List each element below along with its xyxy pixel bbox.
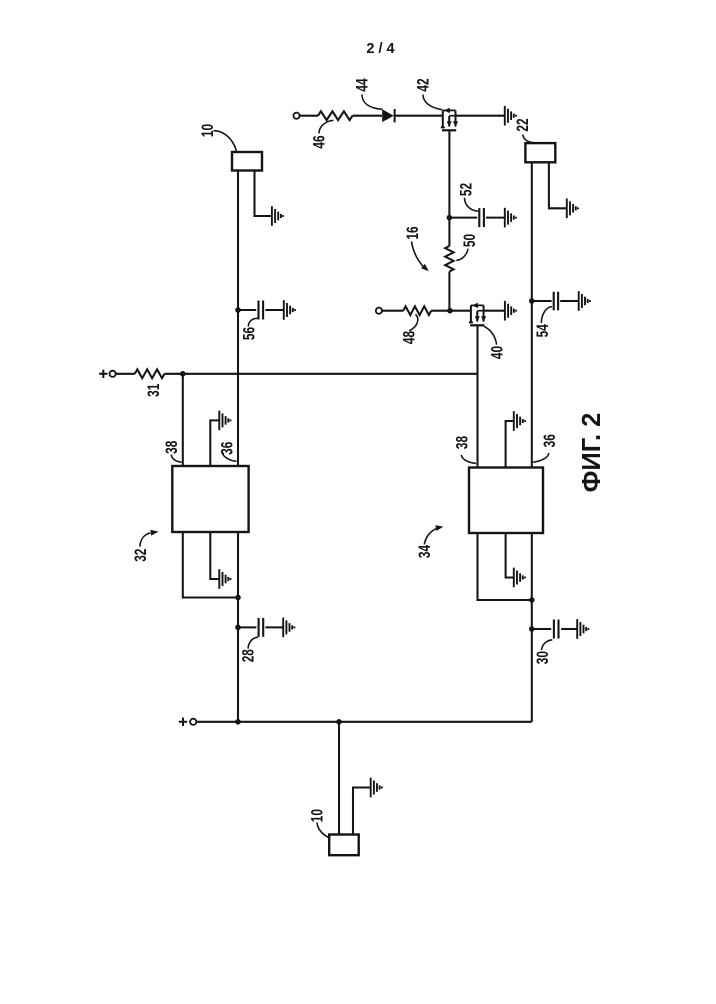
wire xyxy=(486,217,505,219)
wire xyxy=(265,309,283,311)
svg-text:44: 44 xyxy=(354,78,372,91)
label 42 xyxy=(415,78,433,91)
wire (box 32 gnd bottom) xyxy=(210,532,219,579)
wire (bus to box 32) xyxy=(182,374,184,466)
wire (box 34 left return) xyxy=(478,533,532,600)
ground xyxy=(577,619,588,639)
arrow 32 xyxy=(140,530,159,547)
svg-text:30: 30 xyxy=(534,651,552,664)
leader 42 xyxy=(423,95,442,110)
svg-text:46: 46 xyxy=(311,135,329,148)
box 10 (top left) xyxy=(232,152,262,171)
right column wire (box34 to bus) xyxy=(531,533,533,722)
svg-text:38: 38 xyxy=(454,436,472,449)
arrow 16 xyxy=(412,242,429,272)
svg-text:50: 50 xyxy=(461,234,479,247)
leader 50 xyxy=(456,249,468,261)
capacitor 30 xyxy=(554,620,559,639)
ground xyxy=(514,568,525,588)
wire xyxy=(353,115,383,117)
capacitor 52 xyxy=(479,208,484,227)
label 38 (right) xyxy=(454,436,472,449)
bottom bus wire xyxy=(196,721,532,723)
wire xyxy=(116,373,135,375)
wire xyxy=(431,310,471,312)
leader 30 xyxy=(542,640,553,650)
label 52 xyxy=(458,183,476,196)
label 32 xyxy=(132,549,150,562)
ground xyxy=(272,206,283,226)
leader 52 xyxy=(465,198,479,211)
leader 22 xyxy=(523,135,538,144)
terminal (+, upper bus) xyxy=(99,370,116,378)
node (left column joins bus) xyxy=(235,719,241,725)
capacitor 56 xyxy=(259,301,264,320)
leader 40 xyxy=(484,326,497,344)
label 56 xyxy=(241,327,259,340)
svg-text:22: 22 xyxy=(514,118,532,131)
ground xyxy=(283,618,294,638)
svg-text:36: 36 xyxy=(541,434,559,447)
box 22 xyxy=(525,143,555,162)
wire xyxy=(255,171,272,217)
transistor 42 xyxy=(441,108,458,131)
leader 56 xyxy=(248,318,258,326)
diode 44 xyxy=(382,109,394,122)
svg-text:2 / 4: 2 / 4 xyxy=(366,41,394,57)
label 10 xyxy=(199,124,217,137)
node xyxy=(235,595,241,601)
wire xyxy=(549,162,567,208)
resistor 48 xyxy=(403,306,431,315)
svg-text:42: 42 xyxy=(415,78,433,91)
ground xyxy=(567,199,578,219)
label 16 xyxy=(404,226,422,239)
svg-text:10: 10 xyxy=(309,809,327,822)
node (cap 54 tap) xyxy=(529,298,535,304)
svg-text:54: 54 xyxy=(534,324,552,337)
label 36 (right) xyxy=(541,434,559,447)
terminal (+, bottom bus) xyxy=(179,718,196,726)
wire (gate 40 to box 34) xyxy=(476,326,478,468)
wire (box 34 gnd top) xyxy=(506,421,514,468)
terminal (input, second row) xyxy=(376,308,382,314)
label 54 xyxy=(534,324,552,337)
figure caption ФИГ. 2 xyxy=(578,413,606,493)
svg-text:56: 56 xyxy=(241,327,259,340)
node (cap 28 tap) xyxy=(235,625,241,631)
leader 38 (right) xyxy=(461,455,476,464)
ground xyxy=(284,300,295,320)
ground xyxy=(371,778,382,798)
wire xyxy=(449,217,477,219)
label 38 xyxy=(163,441,181,454)
wire xyxy=(560,300,578,302)
svg-text:38: 38 xyxy=(163,441,181,454)
wire xyxy=(382,310,403,312)
ground xyxy=(579,291,590,311)
wire xyxy=(448,272,450,311)
label 46 xyxy=(311,135,329,148)
leader 36 xyxy=(222,450,237,461)
node (box 10 tap) xyxy=(336,719,342,725)
leader 36 (right) xyxy=(533,453,549,462)
left column wire xyxy=(237,171,239,722)
svg-text:40: 40 xyxy=(489,346,507,359)
wire xyxy=(448,218,450,246)
label 44 xyxy=(354,78,372,91)
ground xyxy=(219,411,230,431)
svg-text:52: 52 xyxy=(458,183,476,196)
wire xyxy=(238,309,256,311)
wire xyxy=(456,115,505,117)
resistor 46 xyxy=(318,111,353,120)
node xyxy=(529,597,535,603)
svg-text:ФИГ. 2: ФИГ. 2 xyxy=(578,413,606,493)
upper bus wire xyxy=(165,373,478,375)
ground xyxy=(505,106,516,126)
svg-text:34: 34 xyxy=(416,545,434,558)
node (cap 52 tap) xyxy=(447,215,453,221)
wire xyxy=(300,115,318,117)
ground xyxy=(505,301,516,321)
box 32 xyxy=(172,466,248,532)
leader 38 xyxy=(171,455,181,463)
label 50 xyxy=(461,234,479,247)
leader 28 xyxy=(248,637,258,649)
inductor 50 xyxy=(445,246,453,272)
wire (box 32 gnd top) xyxy=(210,420,219,466)
wire xyxy=(238,626,256,628)
leader 46 xyxy=(319,120,334,133)
wire (gate 42 to node) xyxy=(448,131,450,218)
box 34 xyxy=(469,468,543,534)
svg-text:32: 32 xyxy=(132,549,150,562)
capacitor 54 xyxy=(554,292,558,311)
label 31 xyxy=(145,384,163,397)
node (inductor to row 2) xyxy=(447,308,453,314)
label 30 xyxy=(534,651,552,664)
wire xyxy=(532,300,552,302)
leader 10 xyxy=(214,131,237,152)
svg-text:31: 31 xyxy=(145,384,163,397)
label 10 (bottom) xyxy=(309,809,327,822)
label 34 xyxy=(416,545,434,558)
leader 10 (bottom) xyxy=(317,823,329,838)
node (cap 56 tap) xyxy=(235,307,241,313)
wire xyxy=(561,628,577,630)
label 40 xyxy=(489,346,507,359)
transistor 40 xyxy=(469,303,486,326)
label 48 xyxy=(401,331,419,344)
leader 48 xyxy=(409,314,418,331)
label 22 xyxy=(514,118,532,131)
leader 54 xyxy=(541,307,552,323)
right column wire (box22 to box34) xyxy=(531,162,533,467)
box 10 (bottom) xyxy=(329,835,359,856)
wire xyxy=(532,628,551,630)
wire (box 10 gnd) xyxy=(353,788,370,835)
node (box 32 tap) xyxy=(180,371,186,377)
leader 44 xyxy=(362,95,383,110)
ground xyxy=(219,569,230,589)
ground xyxy=(514,411,525,431)
node (cap 30 tap) xyxy=(529,626,535,632)
ground xyxy=(505,208,516,228)
wire (box 32 left return) xyxy=(183,532,238,598)
wire xyxy=(484,310,505,312)
svg-text:16: 16 xyxy=(404,226,422,239)
svg-text:48: 48 xyxy=(401,331,419,344)
label 36 xyxy=(219,442,237,455)
terminal (input, top row) xyxy=(293,113,299,119)
label 28 xyxy=(240,649,258,662)
sheet number 2/4 xyxy=(366,41,394,57)
wire (box 34 gnd bottom) xyxy=(506,533,514,578)
wire xyxy=(395,115,443,117)
capacitor 28 xyxy=(259,618,264,637)
svg-text:28: 28 xyxy=(240,649,258,662)
arrow 34 xyxy=(424,525,443,544)
wire xyxy=(265,626,283,628)
resistor 31 xyxy=(135,369,165,378)
wire (bus to box 10) xyxy=(338,722,340,835)
